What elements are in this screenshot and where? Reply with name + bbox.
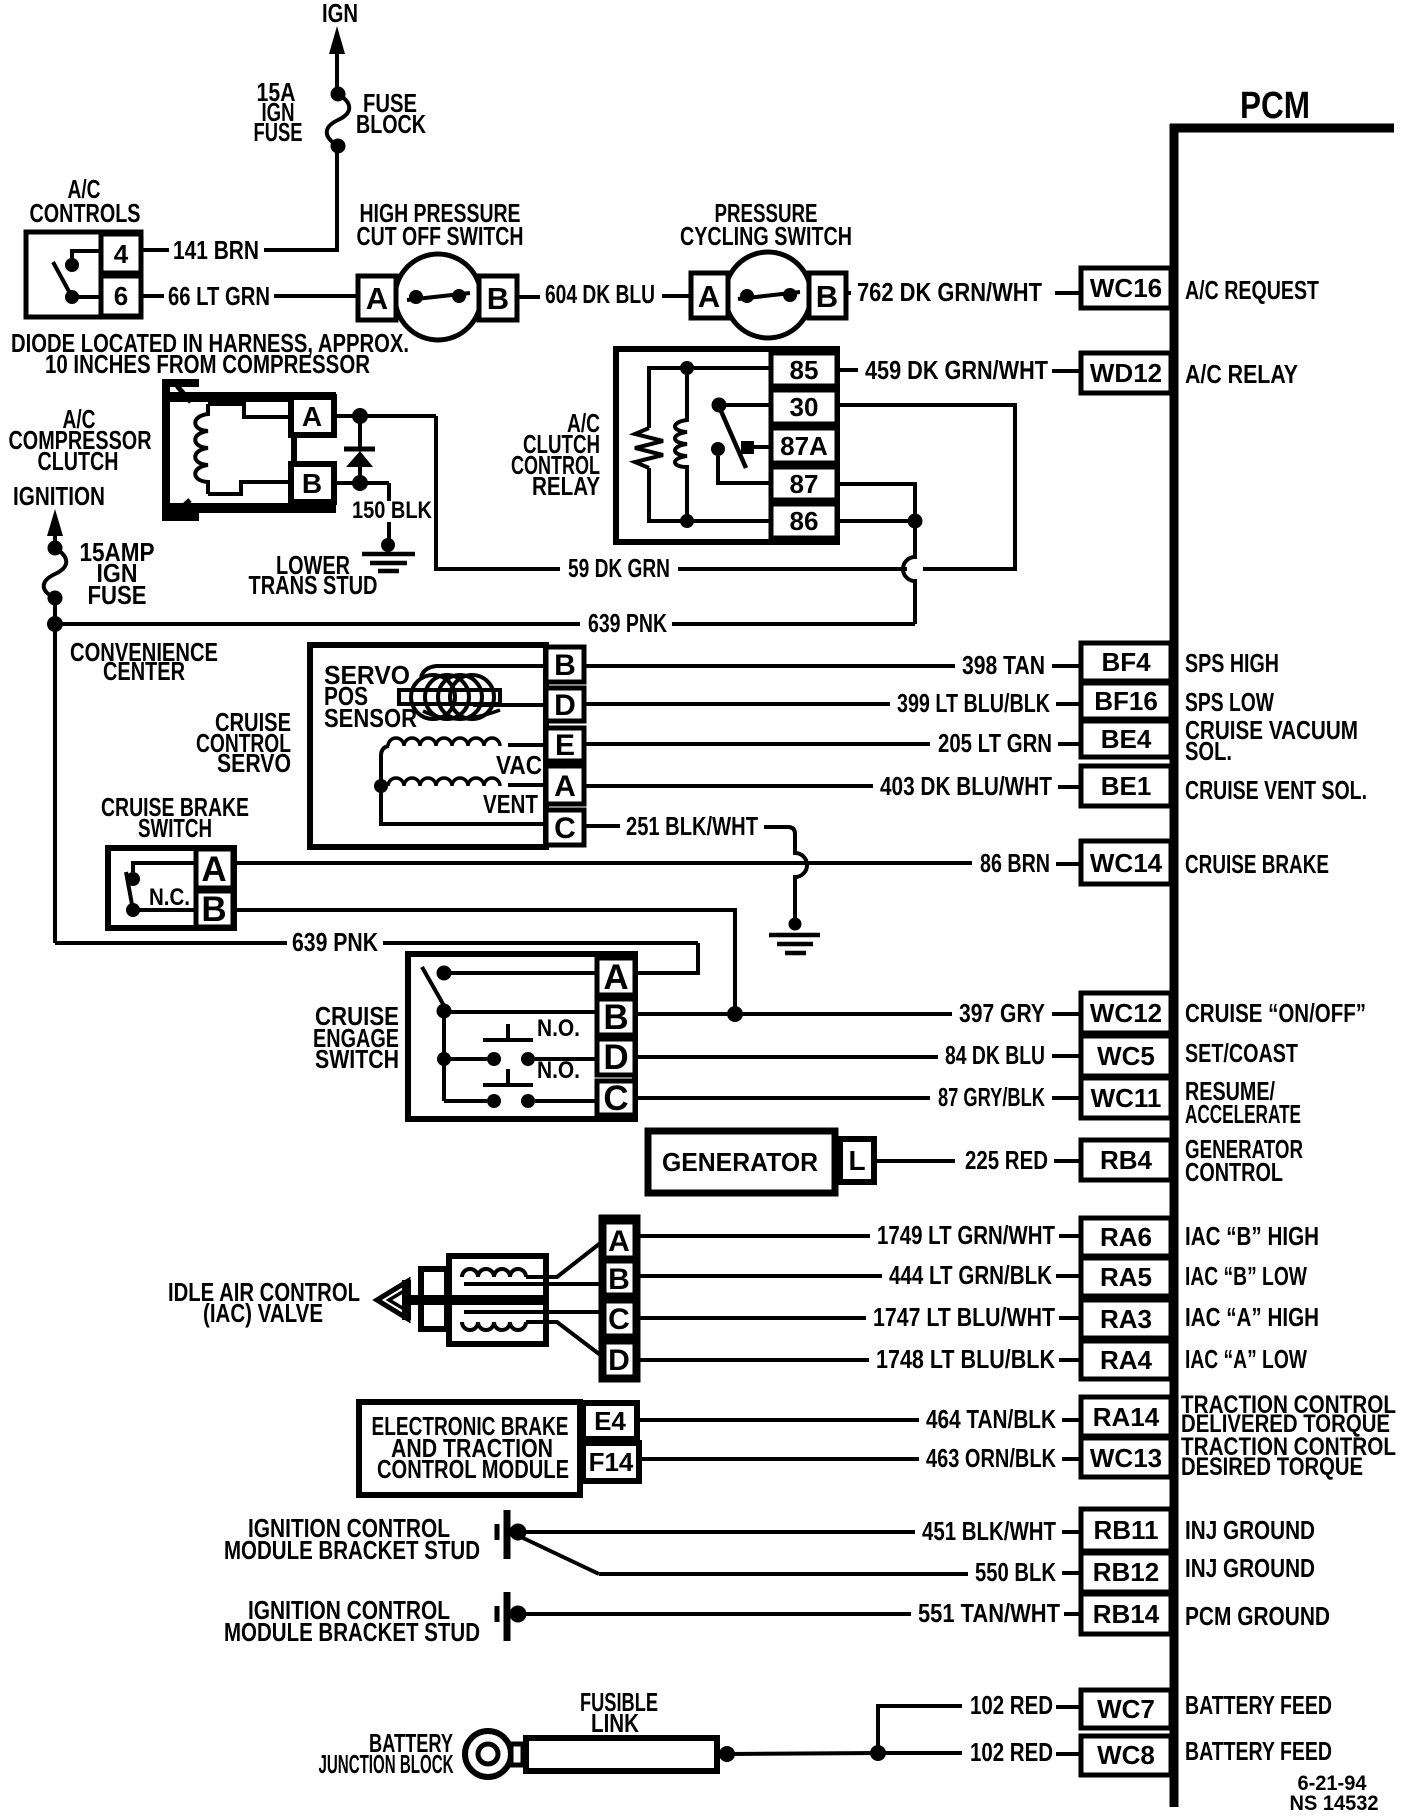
svg-text:397 GRY: 397 GRY xyxy=(959,998,1045,1028)
wire sensor to pin B xyxy=(421,666,546,677)
label DIODE LOCATED IN HARNESS xyxy=(11,328,409,379)
pin B xyxy=(604,1261,635,1296)
svg-text:251 BLK/WHT: 251 BLK/WHT xyxy=(626,811,758,841)
label VENT xyxy=(483,789,538,819)
connector BE1 xyxy=(1081,766,1171,806)
connector RA3 xyxy=(1081,1300,1171,1338)
connector RB11 xyxy=(1081,1509,1171,1551)
wire clutch A to 59 DK GRN xyxy=(436,416,560,569)
connector WC12 xyxy=(1081,993,1171,1033)
valve IAC shaft xyxy=(411,1295,545,1305)
wire 1749 LT GRN/WHT xyxy=(638,1220,1081,1250)
node 102 RED junction xyxy=(870,1745,886,1761)
svg-text:BE4: BE4 xyxy=(1101,724,1152,754)
pin A xyxy=(196,849,233,889)
connector RB14 xyxy=(1081,1594,1171,1634)
svg-text:87 GRY/BLK: 87 GRY/BLK xyxy=(938,1082,1045,1112)
svg-text:59 DK GRN: 59 DK GRN xyxy=(568,553,670,583)
label HIGH PRESSURE CUT OFF SWITCH xyxy=(357,198,524,251)
switch engage N.O. set/coast contact xyxy=(444,1024,597,1066)
pin A xyxy=(291,397,334,435)
svg-text:CONTROL MODULE: CONTROL MODULE xyxy=(377,1454,569,1484)
svg-text:1748 LT BLU/BLK: 1748 LT BLU/BLK xyxy=(876,1344,1055,1374)
svg-text:A: A xyxy=(302,401,322,432)
wire 66 LT GRN xyxy=(141,281,358,311)
node relay coil bottom junction xyxy=(680,514,694,528)
wire relay pin 86 to junction xyxy=(837,519,915,523)
svg-text:INJ GROUND: INJ GROUND xyxy=(1185,1553,1315,1583)
svg-text:463 ORN/BLK: 463 ORN/BLK xyxy=(926,1443,1056,1473)
label N.C. xyxy=(149,884,190,911)
wire PCM top rail xyxy=(1170,124,1394,133)
label TRACTION CONTROL DESIRED TORQUE xyxy=(1181,1433,1396,1481)
wire 451 BLK/WHT xyxy=(524,1516,1081,1546)
svg-text:464 TAN/BLK: 464 TAN/BLK xyxy=(926,1404,1056,1434)
svg-text:RA4: RA4 xyxy=(1100,1345,1153,1375)
wire 86 BRN xyxy=(233,848,1081,878)
wire 639 PNK left drop xyxy=(53,624,57,943)
fuse F1 15A IGN FUSE xyxy=(327,87,350,154)
node IGNITION supply xyxy=(13,481,105,511)
switch engage armature xyxy=(422,966,597,1102)
svg-text:399 LT BLU/BLK: 399 LT BLU/BLK xyxy=(897,688,1050,718)
pin D xyxy=(546,688,584,722)
label SET/COAST xyxy=(1185,1038,1298,1068)
svg-text:762 DK GRN/WHT: 762 DK GRN/WHT xyxy=(857,277,1042,307)
pin B xyxy=(809,273,846,318)
label INJ GROUND lower xyxy=(1185,1553,1315,1583)
svg-text:JUNCTION BLOCK: JUNCTION BLOCK xyxy=(319,1749,454,1779)
pin 87 xyxy=(771,467,837,500)
pin B xyxy=(479,276,517,320)
svg-text:84 DK BLU: 84 DK BLU xyxy=(945,1040,1045,1070)
wire 150 BLK xyxy=(352,483,433,539)
wire 141 BRN xyxy=(141,235,337,265)
wire 102 RED to WC8 xyxy=(878,1737,1081,1767)
svg-text:BATTERY FEED: BATTERY FEED xyxy=(1185,1690,1332,1720)
node PCM label xyxy=(1240,85,1310,127)
resistor VENT solenoid xyxy=(388,778,546,786)
resistor VAC solenoid xyxy=(388,738,546,746)
pin B xyxy=(546,647,584,682)
switch relay armature xyxy=(711,398,771,484)
svg-text:FUSE: FUSE xyxy=(254,117,303,147)
wire 59 DK GRN xyxy=(568,553,907,583)
connector A/C COMPRESSOR CLUTCH shell xyxy=(166,383,199,517)
svg-text:VENT: VENT xyxy=(483,789,538,819)
label IGNITION CONTROL MODULE BRACKET STUD upper xyxy=(224,1513,480,1565)
svg-text:86 BRN: 86 BRN xyxy=(980,848,1050,878)
svg-text:D: D xyxy=(554,689,576,722)
svg-text:MODULE BRACKET STUD: MODULE BRACKET STUD xyxy=(224,1535,480,1565)
svg-text:141 BRN: 141 BRN xyxy=(173,235,259,265)
svg-text:D: D xyxy=(608,1344,630,1377)
label PCM GROUND xyxy=(1185,1601,1330,1631)
svg-text:639 PNK: 639 PNK xyxy=(588,608,667,638)
svg-text:A: A xyxy=(603,958,628,997)
label CONVENIENCE CENTER xyxy=(70,637,218,686)
svg-text:BATTERY FEED: BATTERY FEED xyxy=(1185,1736,1332,1766)
pin C xyxy=(597,1079,635,1118)
label LOWER TRANS STUD xyxy=(249,550,378,600)
svg-text:BLOCK: BLOCK xyxy=(356,109,426,139)
svg-text:GENERATOR: GENERATOR xyxy=(662,1147,818,1177)
svg-text:F14: F14 xyxy=(589,1447,634,1477)
label CRUISE CONTROL SERVO xyxy=(196,707,291,778)
pin 87A xyxy=(771,428,837,463)
wire sensor to pin D xyxy=(473,703,546,707)
pin A xyxy=(604,1222,635,1258)
switch A/C CONTROLS xyxy=(26,232,141,317)
pin 6 xyxy=(101,276,141,316)
svg-text:639 PNK: 639 PNK xyxy=(292,927,378,957)
svg-text:A: A xyxy=(201,850,226,889)
svg-text:550 BLK: 550 BLK xyxy=(975,1557,1056,1587)
svg-text:CRUISE BRAKE: CRUISE BRAKE xyxy=(1185,849,1329,879)
wire 399 LT BLU/BLK xyxy=(584,688,1081,718)
svg-text:N.O.: N.O. xyxy=(537,1015,580,1042)
svg-text:IAC “A” LOW: IAC “A” LOW xyxy=(1185,1344,1307,1374)
svg-text:IGN: IGN xyxy=(322,0,358,28)
label A/C REQUEST xyxy=(1185,275,1319,305)
label A/C COMPRESSOR CLUTCH xyxy=(9,404,152,476)
label CRUISE BRAKE xyxy=(1185,849,1329,879)
label N.O. upper xyxy=(537,1015,580,1042)
svg-text:RB14: RB14 xyxy=(1093,1599,1160,1629)
wire 464 TAN/BLK xyxy=(637,1404,1081,1434)
wire 604 DK BLU xyxy=(517,279,691,309)
connector RA5 xyxy=(1081,1258,1171,1296)
svg-text:WD12: WD12 xyxy=(1090,358,1162,388)
svg-text:66 LT GRN: 66 LT GRN xyxy=(168,281,270,311)
connector RB4 xyxy=(1081,1140,1171,1180)
wire IGN feed arrow xyxy=(329,26,345,93)
wire 762 DK GRN/WHT xyxy=(846,277,1081,307)
svg-text:E: E xyxy=(555,729,575,762)
pin A xyxy=(597,958,635,997)
pin E4 xyxy=(583,1403,637,1439)
connector WD12 xyxy=(1081,353,1171,393)
wire brake B to engage B xyxy=(233,910,735,1014)
svg-text:WC14: WC14 xyxy=(1090,848,1163,878)
svg-text:SET/COAST: SET/COAST xyxy=(1185,1038,1298,1068)
diode CR1 clutch suppression xyxy=(344,416,375,491)
svg-text:CYCLING SWITCH: CYCLING SWITCH xyxy=(680,221,852,251)
svg-text:WC7: WC7 xyxy=(1097,1694,1155,1724)
svg-text:WC12: WC12 xyxy=(1090,998,1162,1028)
svg-text:BF16: BF16 xyxy=(1094,686,1158,716)
node servo common junction xyxy=(374,779,388,793)
svg-text:451 BLK/WHT: 451 BLK/WHT xyxy=(922,1516,1056,1546)
wire 639 PNK xyxy=(60,608,915,638)
node IGN supply xyxy=(322,0,358,28)
wire 205 LT GRN xyxy=(584,728,1081,758)
svg-text:B: B xyxy=(603,998,628,1037)
svg-text:B: B xyxy=(302,468,322,499)
pin 86 xyxy=(771,504,837,538)
svg-text:WC5: WC5 xyxy=(1097,1041,1155,1071)
svg-text:444 LT GRN/BLK: 444 LT GRN/BLK xyxy=(889,1260,1052,1290)
pin B xyxy=(196,890,233,929)
connector IAC pins shell xyxy=(601,1217,638,1380)
svg-text:85: 85 xyxy=(790,355,819,385)
switch engage N.O. resume contact xyxy=(444,1069,597,1108)
fuse F2 15AMP IGN FUSE xyxy=(44,541,67,606)
connector RA6 xyxy=(1081,1218,1171,1256)
relay K1 A/C CLUTCH CONTROL RELAY body xyxy=(616,349,837,542)
connector WC5 xyxy=(1081,1036,1171,1076)
wire 639 PNK to engage switch xyxy=(55,927,698,973)
wire 444 LT GRN/BLK xyxy=(638,1260,1081,1290)
label IAC B HIGH xyxy=(1185,1221,1319,1251)
connector BF16 xyxy=(1081,683,1171,719)
svg-text:CRUISE “ON/OFF”: CRUISE “ON/OFF” xyxy=(1185,998,1366,1028)
svg-text:B: B xyxy=(608,1263,630,1296)
wire 463 ORN/BLK xyxy=(639,1443,1081,1473)
svg-text:SWITCH: SWITCH xyxy=(138,813,212,843)
resistor relay suppression xyxy=(635,428,663,468)
node fusible link output xyxy=(719,1746,735,1762)
svg-text:A/C REQUEST: A/C REQUEST xyxy=(1185,275,1319,305)
pin C xyxy=(546,810,584,845)
wire 403 DK BLU/WHT xyxy=(584,771,1081,801)
wire 225 RED xyxy=(874,1145,1081,1175)
svg-text:MODULE BRACKET STUD: MODULE BRACKET STUD xyxy=(224,1617,480,1647)
wire ignition feed arrow xyxy=(47,509,63,547)
svg-text:CENTER: CENTER xyxy=(103,656,185,686)
label 15AMP IGN FUSE xyxy=(80,537,155,610)
node 639 PNK junction xyxy=(47,616,63,632)
pin B xyxy=(597,998,635,1037)
connector WC13 xyxy=(1081,1438,1171,1477)
svg-text:225 RED: 225 RED xyxy=(965,1145,1048,1175)
label drawing number NS 14532 xyxy=(1290,1792,1379,1815)
svg-text:BF4: BF4 xyxy=(1101,647,1151,677)
svg-text:RELAY: RELAY xyxy=(532,471,600,501)
label IDLE AIR CONTROL (IAC) VALVE xyxy=(168,1277,360,1328)
wire 87/86 junction down to 639 PNK with hop xyxy=(903,521,915,624)
module ELECTRONIC BRAKE AND TRACTION CONTROL MODULE xyxy=(359,1402,580,1495)
wire 459 DK GRN/WHT xyxy=(838,355,1081,385)
connector BE4 xyxy=(1081,721,1171,757)
wire 397 GRY xyxy=(635,998,1081,1028)
svg-text:RB11: RB11 xyxy=(1093,1515,1158,1545)
pin 30 xyxy=(771,390,837,424)
svg-text:PCM GROUND: PCM GROUND xyxy=(1185,1601,1330,1631)
pin 4 xyxy=(101,234,141,273)
svg-text:1747 LT BLU/WHT: 1747 LT BLU/WHT xyxy=(873,1302,1055,1332)
wire 1748 LT BLU/BLK xyxy=(638,1344,1081,1374)
svg-text:RA6: RA6 xyxy=(1100,1222,1152,1252)
svg-text:C: C xyxy=(608,1303,630,1336)
svg-text:WC13: WC13 xyxy=(1090,1443,1162,1473)
pin B xyxy=(291,464,334,502)
fuse FUSIBLE LINK xyxy=(526,1738,717,1771)
pin L xyxy=(840,1139,874,1182)
svg-text:A: A xyxy=(608,1225,630,1258)
svg-text:RB4: RB4 xyxy=(1100,1145,1153,1175)
label PRESSURE CYCLING SWITCH xyxy=(680,198,852,251)
ground stud 1 xyxy=(497,1510,527,1559)
svg-text:SPS HIGH: SPS HIGH xyxy=(1185,648,1279,678)
valve IAC pintle collar xyxy=(402,1280,411,1320)
switch CRUISE ENGAGE SWITCH body xyxy=(408,954,635,1119)
label CRUISE VENT SOL. xyxy=(1185,775,1367,805)
svg-text:150 BLK: 150 BLK xyxy=(352,497,433,524)
wire relay pin 87 drop xyxy=(837,484,915,521)
connector RA14 xyxy=(1081,1397,1171,1436)
connector WC14 xyxy=(1081,841,1171,884)
svg-text:DESIRED TORQUE: DESIRED TORQUE xyxy=(1181,1453,1363,1481)
wire relay coil top rail xyxy=(649,368,771,428)
label CRUISE ENGAGE SWITCH xyxy=(313,1001,399,1074)
svg-text:IGNITION: IGNITION xyxy=(13,481,105,511)
pin 85 xyxy=(771,353,837,386)
label FUSE BLOCK xyxy=(356,88,426,139)
svg-text:87: 87 xyxy=(790,469,819,499)
wire 102 RED to WC7 xyxy=(878,1690,1081,1753)
label IAC A LOW xyxy=(1185,1344,1307,1374)
svg-text:LINK: LINK xyxy=(591,1708,639,1738)
valve IAC clamp xyxy=(421,1269,447,1329)
svg-text:CRUISE VENT SOL.: CRUISE VENT SOL. xyxy=(1185,775,1367,805)
svg-text:BE1: BE1 xyxy=(1101,771,1152,801)
wire relay pin 30 to 59 DK GRN xyxy=(837,405,1015,569)
svg-text:SOL.: SOL. xyxy=(1185,736,1232,766)
wire pin B to 150 BLK xyxy=(334,481,389,485)
svg-text:B: B xyxy=(816,279,838,314)
svg-text:VAC: VAC xyxy=(496,750,542,780)
svg-text:10 INCHES FROM COMPRESSOR: 10 INCHES FROM COMPRESSOR xyxy=(45,349,370,379)
svg-text:WC11: WC11 xyxy=(1091,1083,1162,1113)
svg-text:INJ GROUND: INJ GROUND xyxy=(1185,1515,1315,1545)
connector WC11 xyxy=(1081,1078,1171,1118)
wire fusible link to junction xyxy=(727,1753,878,1754)
pin E xyxy=(546,728,584,762)
connector RA4 xyxy=(1081,1341,1171,1379)
wire 87 GRY/BLK xyxy=(635,1082,1081,1112)
pin A xyxy=(358,276,396,320)
svg-text:E4: E4 xyxy=(594,1406,626,1436)
pin A xyxy=(691,273,728,318)
wire 398 TAN xyxy=(584,650,1081,680)
svg-text:B: B xyxy=(554,649,576,682)
svg-text:C: C xyxy=(554,812,576,845)
label TRACTION CONTROL DELIVERED TORQUE xyxy=(1181,1391,1396,1438)
ground stud 2 xyxy=(497,1592,527,1641)
label BATTERY FEED lower xyxy=(1185,1736,1332,1766)
svg-text:RA3: RA3 xyxy=(1100,1304,1152,1334)
svg-text:102 RED: 102 RED xyxy=(970,1737,1053,1767)
wire 550 BLK xyxy=(521,1537,1081,1587)
svg-text:IAC “A” HIGH: IAC “A” HIGH xyxy=(1185,1302,1319,1332)
label BATTERY FEED upper xyxy=(1185,1690,1332,1720)
svg-text:SENSOR: SENSOR xyxy=(324,703,417,733)
svg-text:N.O.: N.O. xyxy=(537,1057,580,1084)
label GENERATOR CONTROL xyxy=(1185,1134,1303,1187)
svg-text:403 DK BLU/WHT: 403 DK BLU/WHT xyxy=(880,771,1052,801)
svg-text:A: A xyxy=(554,770,576,803)
svg-text:N.C.: N.C. xyxy=(149,884,190,911)
label IAC A HIGH xyxy=(1185,1302,1319,1332)
svg-text:86: 86 xyxy=(790,506,819,536)
connector WC16 xyxy=(1081,268,1171,308)
label 15A IGN FUSE xyxy=(254,77,303,147)
wire PCM main vertical rail xyxy=(1170,124,1179,1807)
svg-text:4: 4 xyxy=(114,239,129,269)
svg-text:IAC “B” LOW: IAC “B” LOW xyxy=(1185,1261,1307,1291)
label CRUISE ON/OFF xyxy=(1185,998,1366,1028)
svg-text:CONTROL: CONTROL xyxy=(1185,1157,1283,1187)
inductor servo position sensor xyxy=(399,675,500,719)
svg-text:PCM: PCM xyxy=(1240,85,1310,127)
svg-text:551 TAN/WHT: 551 TAN/WHT xyxy=(918,1598,1060,1628)
valve IAC pintle cone xyxy=(377,1281,408,1319)
svg-text:SERVO: SERVO xyxy=(217,748,291,778)
svg-text:D: D xyxy=(603,1038,628,1077)
svg-text:WC16: WC16 xyxy=(1090,273,1162,303)
terminal ring battery junction xyxy=(465,1731,523,1777)
wire 551 TAN/WHT xyxy=(524,1598,1081,1628)
svg-text:RB12: RB12 xyxy=(1093,1557,1159,1587)
inductor IAC coil B xyxy=(462,1241,603,1284)
module IAC VALVE body xyxy=(449,1256,546,1344)
connector BF4 xyxy=(1081,643,1171,681)
svg-text:A: A xyxy=(698,279,720,314)
svg-text:CLUTCH: CLUTCH xyxy=(38,446,119,476)
label CRUISE VACUUM SOL. xyxy=(1185,715,1358,766)
connector WC8 xyxy=(1081,1736,1171,1775)
label date 6-21-94 xyxy=(1298,1772,1367,1795)
svg-text:C: C xyxy=(603,1079,628,1118)
svg-text:WC8: WC8 xyxy=(1097,1740,1155,1770)
wire 84 DK BLU xyxy=(635,1040,1081,1070)
wire pin A to node xyxy=(334,408,436,424)
svg-text:NS 14532: NS 14532 xyxy=(1290,1792,1379,1815)
switch CRUISE BRAKE SWITCH xyxy=(108,848,234,928)
label A/C CONTROLS xyxy=(30,174,141,228)
ground LOWER TRANS STUD xyxy=(362,538,415,571)
svg-text:FUSE: FUSE xyxy=(88,580,147,610)
wire 141 BRN vertical from fuse xyxy=(335,146,339,252)
svg-text:604 DK BLU: 604 DK BLU xyxy=(545,279,655,309)
wire 1747 LT BLU/WHT xyxy=(638,1302,1081,1332)
label A/C CLUTCH CONTROL RELAY xyxy=(511,408,600,501)
svg-text:SWITCH: SWITCH xyxy=(315,1044,399,1074)
svg-text:A/C RELAY: A/C RELAY xyxy=(1185,359,1298,389)
pin F14 xyxy=(583,1443,639,1481)
ground 251 BLK/WHT xyxy=(769,918,820,954)
wire servo common to pin C xyxy=(381,746,546,824)
connector WC7 xyxy=(1081,1690,1171,1728)
label IAC B LOW xyxy=(1185,1261,1307,1291)
svg-text:SPS LOW: SPS LOW xyxy=(1185,687,1274,717)
label SPS LOW xyxy=(1185,687,1274,717)
connector A/C COMPRESSOR CLUTCH body xyxy=(170,397,336,508)
svg-text:398 TAN: 398 TAN xyxy=(962,650,1045,680)
svg-text:CONTROLS: CONTROLS xyxy=(30,198,141,228)
label VAC xyxy=(496,750,542,780)
wire relay coil bottom rail xyxy=(649,468,771,521)
svg-text:205 LT GRN: 205 LT GRN xyxy=(938,728,1052,758)
label FUSIBLE LINK xyxy=(580,1687,658,1738)
svg-text:6: 6 xyxy=(114,281,128,311)
label CRUISE BRAKE SWITCH xyxy=(101,792,249,843)
svg-text:102 RED: 102 RED xyxy=(970,1690,1053,1720)
label RESUME/ACCELERATE xyxy=(1185,1076,1301,1129)
label A/C RELAY xyxy=(1185,359,1298,389)
label N.O. lower xyxy=(537,1057,580,1084)
